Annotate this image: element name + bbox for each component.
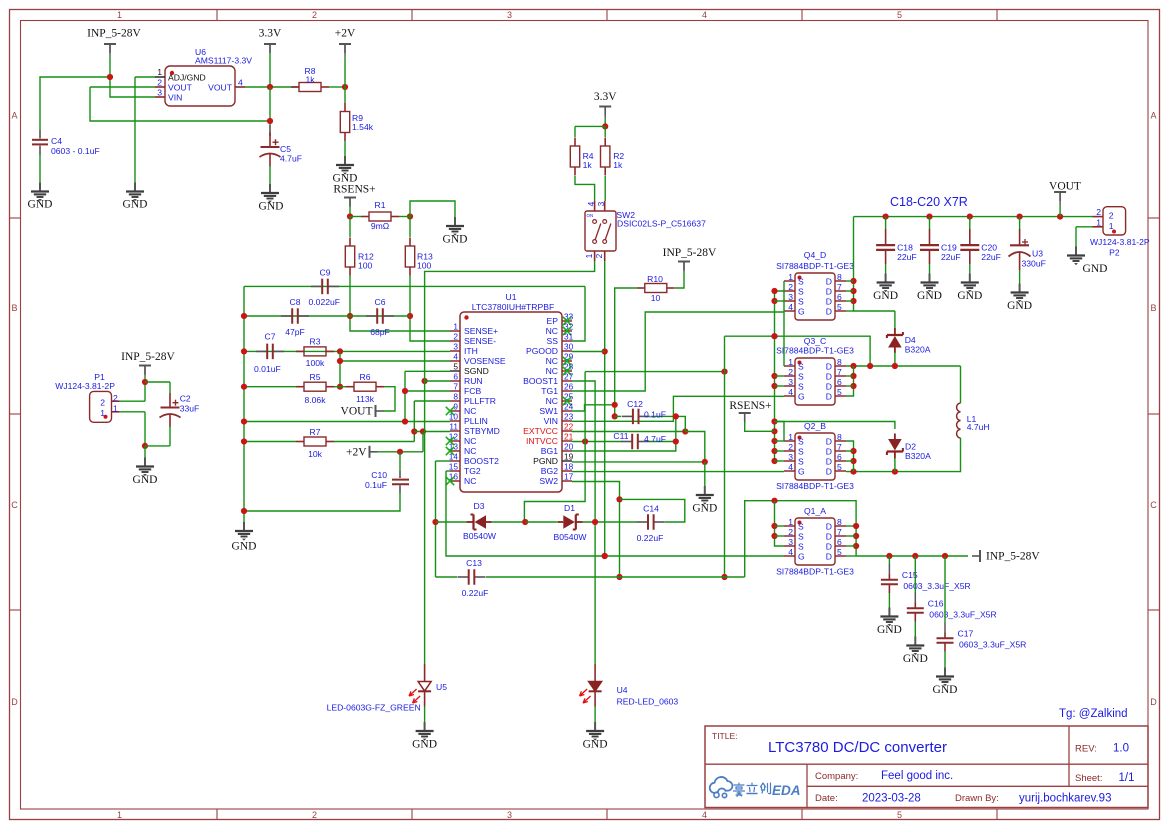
svg-text:NC: NC [546,396,558,406]
svg-text:2: 2 [594,253,604,258]
svg-text:1: 1 [584,253,594,258]
svg-text:NC: NC [546,326,558,336]
svg-text:RUN: RUN [464,376,483,386]
svg-text:VOUT: VOUT [168,83,193,93]
svg-text:D: D [826,287,832,297]
svg-text:24: 24 [564,402,574,412]
svg-text:Feel good inc.: Feel good inc. [881,770,953,782]
svg-text:SS: SS [547,336,559,346]
svg-text:0603_3.3uF_X5R: 0603_3.3uF_X5R [929,610,996,620]
svg-text:100: 100 [417,261,432,271]
svg-text:D: D [826,447,832,457]
svg-text:U1: U1 [506,292,517,302]
svg-text:8: 8 [837,272,842,282]
svg-text:G: G [798,467,805,477]
svg-text:R5: R5 [310,372,321,382]
svg-text:10k: 10k [308,449,323,459]
svg-text:3: 3 [453,342,458,352]
svg-text:1k: 1k [583,160,593,170]
svg-text:20: 20 [564,442,574,452]
svg-text:SI7884BDP-T1-GE3: SI7884BDP-T1-GE3 [776,567,854,577]
svg-text:2023-03-28: 2023-03-28 [862,793,921,805]
svg-text:3: 3 [788,292,793,302]
svg-text:R10: R10 [647,274,663,284]
svg-text:3.3V: 3.3V [259,28,282,40]
svg-text:1: 1 [788,272,793,282]
svg-text:3: 3 [507,810,512,820]
svg-text:SENSE-: SENSE- [464,336,496,346]
svg-text:8: 8 [837,517,842,527]
svg-text:BG2: BG2 [541,466,558,476]
svg-text:4: 4 [788,302,793,312]
svg-text:A: A [1150,111,1156,121]
svg-text:7: 7 [837,442,842,452]
svg-text:21: 21 [564,432,574,442]
svg-text:TITLE:: TITLE: [712,731,738,741]
svg-text:C9: C9 [320,268,331,278]
svg-text:RSENS+: RSENS+ [333,183,375,195]
svg-text:Sheet:: Sheet: [1075,773,1102,784]
svg-text:U5: U5 [436,682,447,692]
svg-text:S: S [798,362,804,372]
svg-text:GND: GND [583,738,608,750]
svg-text:4.7uF: 4.7uF [280,154,302,164]
svg-text:9: 9 [453,402,458,412]
svg-text:0.22uF: 0.22uF [637,533,664,543]
svg-text:17: 17 [564,472,574,482]
svg-text:6: 6 [837,292,842,302]
svg-text:6: 6 [837,452,842,462]
svg-text:INP_5-28V: INP_5-28V [121,351,175,363]
svg-text:3: 3 [596,201,606,206]
svg-text:C8: C8 [290,297,301,307]
svg-text:C12: C12 [627,399,643,409]
svg-text:C14: C14 [643,504,659,514]
svg-text:2: 2 [453,332,458,342]
svg-text:S: S [798,532,804,542]
svg-text:30: 30 [564,342,574,352]
svg-text:D2: D2 [905,442,916,452]
svg-text:D: D [826,297,832,307]
svg-text:D: D [1150,697,1157,707]
svg-text:INTVCC: INTVCC [526,436,558,446]
svg-text:C2: C2 [180,394,191,404]
svg-text:C4: C4 [51,136,62,146]
svg-text:11: 11 [449,422,458,432]
svg-text:5: 5 [837,302,842,312]
svg-text:5: 5 [897,810,902,820]
svg-text:PGND: PGND [533,456,558,466]
svg-text:330uF: 330uF [1022,259,1046,269]
svg-text:VOSENSE: VOSENSE [464,356,506,366]
svg-text:2: 2 [1109,211,1114,221]
svg-text:0.1uF: 0.1uF [365,480,387,490]
svg-text:C7: C7 [265,332,276,342]
svg-text:7: 7 [837,367,842,377]
svg-text:5: 5 [453,362,458,372]
svg-text:1k: 1k [305,75,315,85]
svg-text:C: C [1150,500,1157,510]
svg-text:GND: GND [933,684,958,696]
svg-text:1/1: 1/1 [1119,772,1135,784]
svg-text:1: 1 [113,403,118,413]
svg-text:4: 4 [788,462,793,472]
svg-text:10: 10 [651,293,661,303]
svg-text:C13: C13 [466,558,482,568]
svg-text:D: D [826,382,832,392]
svg-text:Q1_A: Q1_A [804,506,826,516]
svg-text:19: 19 [564,452,574,462]
svg-text:D: D [826,277,832,287]
svg-text:23: 23 [564,412,574,422]
svg-text:ITH: ITH [464,346,478,356]
svg-text:5: 5 [897,10,902,20]
svg-text:NC: NC [546,356,558,366]
svg-text:S: S [798,372,804,382]
svg-text:U4: U4 [617,685,628,695]
svg-text:0.01uF: 0.01uF [254,364,281,374]
svg-text:D: D [826,392,832,402]
svg-text:PLLIN: PLLIN [464,416,488,426]
svg-text:D: D [11,697,18,707]
svg-text:C10: C10 [371,470,387,480]
svg-text:G: G [798,552,805,562]
svg-text:S: S [798,457,804,467]
svg-text:100k: 100k [306,358,325,368]
svg-text:GND: GND [692,502,717,514]
svg-text:G: G [798,307,805,317]
svg-text:GND: GND [412,738,437,750]
svg-text:R3: R3 [310,337,321,347]
svg-text:STBYMD: STBYMD [464,426,500,436]
svg-text:R1: R1 [375,200,386,210]
svg-text:4: 4 [453,352,458,362]
svg-text:S: S [798,297,804,307]
svg-text:3: 3 [788,537,793,547]
svg-text:2: 2 [788,527,793,537]
svg-text:2: 2 [312,810,317,820]
svg-text:4: 4 [788,387,793,397]
svg-text:GND: GND [28,199,53,211]
svg-text:2: 2 [113,393,118,403]
svg-text:18: 18 [564,462,574,472]
svg-text:8: 8 [837,357,842,367]
svg-text:9mΩ: 9mΩ [371,221,390,231]
svg-text:S: S [798,437,804,447]
svg-text:Q3_C: Q3_C [804,336,826,346]
svg-text:NC: NC [464,476,476,486]
svg-text:1: 1 [453,322,458,332]
svg-text:4: 4 [238,78,243,88]
svg-text:D: D [826,307,832,317]
svg-text:A: A [11,111,17,121]
svg-text:LED-0603G-FZ_GREEN: LED-0603G-FZ_GREEN [327,703,421,713]
svg-text:AMS1117-3.3V: AMS1117-3.3V [195,56,252,66]
svg-text:2: 2 [312,10,317,20]
svg-text:3: 3 [157,88,162,98]
svg-text:Drawn By:: Drawn By: [955,793,999,804]
svg-text:VIN: VIN [168,93,182,103]
svg-text:SW2: SW2 [539,476,558,486]
svg-text:INP_5-28V: INP_5-28V [663,247,717,259]
svg-text:GND: GND [873,290,898,302]
svg-text:0.22uF: 0.22uF [462,588,489,598]
svg-text:D1: D1 [564,503,575,513]
svg-text:14: 14 [449,452,459,462]
svg-text:PGOOD: PGOOD [526,346,558,356]
svg-text:GND: GND [123,199,148,211]
svg-text:C16: C16 [928,599,944,609]
svg-text:S: S [798,277,804,287]
svg-text:DSIC02LS-P_C516637: DSIC02LS-P_C516637 [617,219,706,229]
svg-text:GND: GND [917,290,942,302]
svg-text:2: 2 [788,442,793,452]
svg-text:G: G [798,392,805,402]
svg-text:33uF: 33uF [180,404,200,414]
svg-text:GND: GND [443,233,468,245]
svg-text:ADJ/GND: ADJ/GND [168,73,206,83]
svg-text:BOOST2: BOOST2 [464,456,499,466]
svg-text:SI7884BDP-T1-GE3: SI7884BDP-T1-GE3 [776,261,854,271]
svg-text:B0540W: B0540W [554,532,588,542]
svg-text:0.022uF: 0.022uF [309,297,341,307]
svg-text:S: S [798,522,804,532]
svg-text:BG1: BG1 [541,446,558,456]
svg-text:Q2_B: Q2_B [804,421,826,431]
svg-text:C: C [11,500,18,510]
svg-text:D: D [826,532,832,542]
svg-text:31: 31 [564,332,574,342]
svg-text:15: 15 [449,462,459,472]
svg-text:6: 6 [837,537,842,547]
svg-text:INP_5-28V: INP_5-28V [986,551,1040,563]
svg-text:4: 4 [788,547,793,557]
svg-text:8: 8 [453,392,458,402]
svg-text:R7: R7 [310,427,321,437]
svg-text:Company:: Company: [815,771,858,782]
svg-text:GND: GND [1083,263,1108,275]
svg-text:GND: GND [903,653,928,665]
svg-text:B320A: B320A [905,345,931,355]
svg-text:C6: C6 [375,297,386,307]
svg-text:+2V: +2V [346,446,367,458]
svg-text:7: 7 [837,527,842,537]
svg-text:22uF: 22uF [981,252,1001,262]
svg-text:NC: NC [464,406,476,416]
svg-text:2: 2 [788,367,793,377]
svg-text:TG1: TG1 [541,386,558,396]
svg-text:EP: EP [547,316,559,326]
svg-text:C20: C20 [981,243,997,253]
svg-text:NC: NC [464,446,476,456]
svg-text:Tg: @Zalkind: Tg: @Zalkind [1059,708,1128,720]
svg-text:C18: C18 [897,243,913,253]
svg-text:5: 5 [837,547,842,557]
svg-text:8.06k: 8.06k [304,395,326,405]
svg-text:yurij.bochkarev.93: yurij.bochkarev.93 [1019,793,1111,805]
svg-text:U3: U3 [1032,249,1043,259]
svg-text:3: 3 [788,452,793,462]
svg-text:5: 5 [837,387,842,397]
svg-text:C11: C11 [613,431,628,441]
svg-text:Date:: Date: [815,793,838,804]
svg-text:GND: GND [232,541,257,553]
svg-text:22uF: 22uF [897,252,917,262]
svg-text:LTC3780IUH#TRPBF: LTC3780IUH#TRPBF [472,302,554,312]
svg-text:C19: C19 [941,243,957,253]
svg-text:SW1: SW1 [539,406,558,416]
svg-text:4: 4 [702,810,707,820]
svg-text:REV:: REV: [1075,744,1097,755]
svg-text:7: 7 [453,382,458,392]
svg-text:1: 1 [157,67,162,77]
svg-text:26: 26 [564,382,574,392]
svg-text:D: D [826,522,832,532]
svg-text:VOUT: VOUT [208,83,233,93]
svg-text:22: 22 [564,422,574,432]
svg-text:1: 1 [1109,221,1114,231]
svg-text:2: 2 [788,282,793,292]
svg-text:TG2: TG2 [464,466,481,476]
svg-text:GND: GND [133,474,158,486]
svg-text:VOUT: VOUT [341,406,373,418]
svg-text:1: 1 [788,432,793,442]
svg-text:D: D [826,457,832,467]
svg-text:27: 27 [564,372,574,382]
svg-text:SI7884BDP-T1-GE3: SI7884BDP-T1-GE3 [776,481,854,491]
svg-text:S: S [798,382,804,392]
svg-text:1: 1 [117,10,122,20]
svg-text:NC: NC [464,436,476,446]
svg-text:22uF: 22uF [941,252,961,262]
svg-text:3.3V: 3.3V [594,91,617,103]
svg-text:4: 4 [586,201,596,206]
svg-text:C5: C5 [280,144,291,154]
svg-text:68pF: 68pF [370,327,390,337]
svg-text:S: S [798,542,804,552]
svg-text:P2: P2 [1109,247,1120,257]
svg-text:5: 5 [837,462,842,472]
svg-text:B320A: B320A [905,451,931,461]
svg-text:1: 1 [788,517,793,527]
svg-text:GND: GND [1007,300,1032,312]
svg-text:3: 3 [788,377,793,387]
svg-text:RED-LED_0603: RED-LED_0603 [617,697,679,707]
svg-text:4.7uH: 4.7uH [967,422,990,432]
svg-text:D3: D3 [474,501,485,511]
svg-text:WJ124-3.81-2P: WJ124-3.81-2P [1090,237,1150,247]
svg-text:C17: C17 [958,629,974,639]
svg-text:2: 2 [157,78,162,88]
svg-text:ON: ON [587,213,594,218]
svg-text:D: D [826,437,832,447]
svg-text:GND: GND [259,200,284,212]
svg-text:Q4_D: Q4_D [804,250,826,260]
svg-text:SGND: SGND [464,366,489,376]
svg-text:D: D [826,362,832,372]
svg-text:8: 8 [837,432,842,442]
svg-text:0.1uF: 0.1uF [644,410,666,420]
svg-text:0603 - 0.1uF: 0603 - 0.1uF [51,146,100,156]
svg-text:GND: GND [957,290,982,302]
svg-text:1: 1 [117,810,122,820]
svg-text:6: 6 [837,377,842,387]
svg-text:WJ124-3.81-2P: WJ124-3.81-2P [55,381,115,391]
svg-text:D: D [826,552,832,562]
svg-text:D: D [826,467,832,477]
svg-text:RSENS+: RSENS+ [729,400,771,412]
svg-text:SENSE+: SENSE+ [464,326,498,336]
svg-text:EDA: EDA [772,783,801,798]
svg-text:D: D [826,542,832,552]
svg-text:PLLFTR: PLLFTR [464,396,496,406]
svg-text:INP_5-28V: INP_5-28V [87,28,141,40]
svg-text:BOOST1: BOOST1 [523,376,558,386]
svg-text:7: 7 [837,282,842,292]
svg-text:1: 1 [1096,218,1101,228]
svg-text:B: B [1150,303,1156,313]
svg-text:SI7884BDP-T1-GE3: SI7884BDP-T1-GE3 [776,346,854,356]
svg-text:+2V: +2V [335,28,356,40]
svg-text:B: B [11,303,17,313]
svg-text:2: 2 [1096,207,1101,217]
svg-text:VOUT: VOUT [1049,180,1081,192]
svg-text:4: 4 [702,10,707,20]
svg-text:100: 100 [358,261,373,271]
svg-text:113k: 113k [356,394,375,404]
svg-text:3: 3 [507,10,512,20]
svg-text:D: D [826,372,832,382]
svg-text:EXTVCC: EXTVCC [523,426,558,436]
svg-text:NC: NC [546,366,558,376]
svg-text:S: S [798,447,804,457]
svg-text:FCB: FCB [464,386,481,396]
svg-text:GND: GND [877,624,902,636]
svg-text:47pF: 47pF [285,327,305,337]
svg-text:R6: R6 [360,372,371,382]
svg-text:0603_3.3uF_X5R: 0603_3.3uF_X5R [903,581,970,591]
svg-text:1k: 1k [613,160,623,170]
svg-text:6: 6 [453,372,458,382]
svg-text:S: S [798,287,804,297]
svg-text:1: 1 [788,357,793,367]
svg-text:10: 10 [449,412,459,422]
svg-text:4.7uF: 4.7uF [644,434,666,444]
svg-text:VIN: VIN [544,416,558,426]
svg-text:2: 2 [100,397,105,407]
svg-text:D4: D4 [905,335,916,345]
svg-text:0603_3.3uF_X5R: 0603_3.3uF_X5R [959,640,1026,650]
svg-text:B0540W: B0540W [463,531,497,541]
svg-text:1.0: 1.0 [1113,743,1129,755]
svg-text:C18-C20 X7R: C18-C20 X7R [890,195,968,209]
svg-text:1.54k: 1.54k [352,122,374,132]
svg-text:LTC3780 DC/DC converter: LTC3780 DC/DC converter [768,739,947,756]
